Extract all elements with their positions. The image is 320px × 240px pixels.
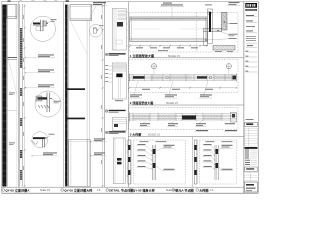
svg-text:Scale 1:5: Scale 1:5 xyxy=(40,189,51,192)
svg-text:QY-05 墙身大样: QY-05 墙身大样 xyxy=(133,187,155,192)
svg-text:2 顶面造型放大图: 2 顶面造型放大图 xyxy=(130,100,154,105)
svg-text:SCALE 1:5: SCALE 1:5 xyxy=(168,55,180,58)
svg-text:单元A 节点图: 单元A 节点图 xyxy=(175,187,193,192)
svg-text:DETAIL 节点详图: DETAIL 节点详图 xyxy=(109,187,133,192)
svg-text:1 立面造型放大图: 1 立面造型放大图 xyxy=(130,53,154,58)
svg-text:3 大样图: 3 大样图 xyxy=(130,132,142,137)
svg-text:QY-05 立面详图A: QY-05 立面详图A xyxy=(5,187,30,192)
svg-text:SCALE 1:5: SCALE 1:5 xyxy=(166,102,178,105)
svg-text:QY-05 立面详图大样: QY-05 立面详图大样 xyxy=(64,187,92,192)
svg-text:SCALE 1:3: SCALE 1:3 xyxy=(148,133,160,136)
svg-text:大样图: 大样图 xyxy=(199,187,208,192)
